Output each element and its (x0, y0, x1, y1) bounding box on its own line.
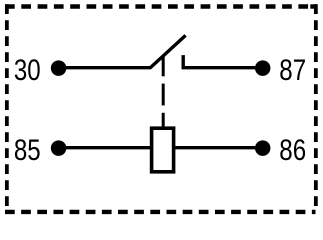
wire contact stub to terminal 87 (182, 66, 263, 69)
actuator dashed link segment 3 (162, 113, 165, 127)
actuator dashed link segment 2 (162, 84, 165, 106)
terminal 86 (255, 140, 271, 156)
wire coil to terminal 86 (175, 146, 263, 149)
svg-text:86: 86 (279, 134, 306, 167)
fixed contact stub of 87 (181, 55, 184, 68)
wire terminal 30 to pivot, and switch blade (59, 35, 186, 67)
svg-text:30: 30 (14, 54, 41, 87)
relay body outline: right dashed edge (314, 4, 318, 206)
relay body outline: bottom dashed edge (5, 210, 316, 214)
relay body outline: top-right corner arm (310, 4, 316, 8)
actuator dashed link segment 1 (162, 57, 165, 77)
wire terminal 85 to coil (59, 146, 151, 149)
coil K1 (152, 128, 174, 172)
relay body outline: left dashed edge (5, 4, 9, 206)
terminal 30 (51, 60, 67, 76)
svg-text:87: 87 (279, 54, 306, 87)
relay body outline: top dashed edge (5, 4, 317, 8)
terminal 87 (255, 60, 271, 76)
svg-text:85: 85 (14, 134, 41, 167)
terminal 85 (51, 140, 67, 156)
